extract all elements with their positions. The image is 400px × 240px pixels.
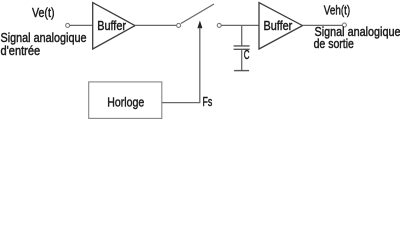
ground bar (234, 70, 249, 72)
wire switch to buffer U2 (221, 24, 259, 26)
svg-text:Horloge: Horloge (107, 95, 144, 110)
switch lever (181, 4, 214, 24)
capacitor C lead bottom (241, 49, 243, 70)
wire buffer U1 to switch (135, 24, 177, 26)
capacitor C bottom plate (234, 48, 250, 50)
switch left terminal (177, 23, 181, 27)
op-amp buffer U1 (93, 3, 135, 49)
svg-text:Veh(t): Veh(t) (324, 3, 350, 18)
clock box Horloge (89, 82, 162, 119)
control arrow head (197, 21, 202, 29)
capacitor C top plate (234, 45, 250, 47)
switch right terminal (217, 23, 221, 27)
control wire vertical (199, 28, 201, 103)
output terminal circle (342, 23, 346, 27)
capacitor C lead top (241, 25, 243, 46)
svg-text:Buffer: Buffer (264, 18, 293, 33)
svg-text:d'entrée: d'entrée (1, 43, 41, 58)
wire clock box to control line (162, 102, 201, 104)
op-amp buffer U2 (259, 3, 303, 49)
wire buffer U2 to output (303, 24, 343, 26)
svg-text:Ve(t): Ve(t) (32, 5, 55, 20)
svg-text:de sortie: de sortie (314, 36, 354, 51)
input terminal circle (66, 23, 70, 27)
svg-text:Buffer: Buffer (97, 18, 126, 33)
svg-text:C: C (244, 47, 250, 62)
wire input to buffer U1 (70, 24, 93, 26)
svg-text:Fs: Fs (203, 94, 213, 109)
